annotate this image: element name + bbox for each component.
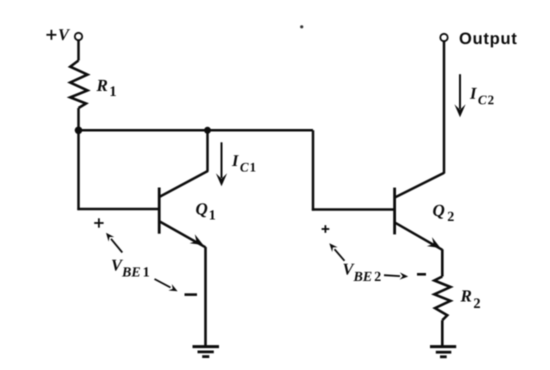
wire Q2 collector to Output <box>443 41 446 174</box>
label + (VBE2) <box>322 225 330 233</box>
arrow VBE1 to minus <box>155 279 178 291</box>
arrow VBE2 to minus <box>384 272 408 279</box>
wire branch down to Q2 base <box>312 130 315 210</box>
label R2 <box>460 290 479 308</box>
label minus (VBE1) <box>185 293 198 296</box>
label VBE1 <box>112 260 149 277</box>
wire +V to R1 <box>77 40 80 60</box>
terminal +V <box>75 33 82 40</box>
wire node B to Q1 collector <box>206 130 209 171</box>
arrow IC1 <box>216 142 227 186</box>
node B junction <box>204 127 211 134</box>
wire left branch (node A to Q1 base wire) <box>77 130 80 210</box>
label R1 <box>96 80 115 96</box>
terminal Output <box>440 34 447 41</box>
wire Q1 base <box>77 208 159 211</box>
label Output <box>460 32 517 47</box>
resistor R1 <box>70 61 87 109</box>
wire R1 to node A <box>77 108 80 131</box>
resistor R2 <box>434 277 450 321</box>
label Q2 <box>433 205 454 221</box>
wire Q1 emitter to ground <box>204 247 207 347</box>
label IC1 <box>232 155 256 171</box>
wire Q2 emitter to R2 <box>441 249 444 276</box>
arrow VBE2 to + <box>329 243 344 261</box>
wire R2 to ground <box>441 320 444 347</box>
ground (R2) <box>430 347 456 357</box>
label Q1 <box>196 203 215 219</box>
label IC2 <box>470 88 494 104</box>
transistor Q2 <box>395 173 444 250</box>
node A junction <box>75 127 83 135</box>
arrow IC2 <box>454 74 465 117</box>
label minus (VBE2) <box>417 273 426 276</box>
wire Q2 base <box>312 208 395 211</box>
ground (Q1 emitter) <box>193 347 220 357</box>
wire main horizontal node A to Q2 branch <box>79 129 314 132</box>
label +V <box>46 29 70 40</box>
label VBE2 <box>343 264 380 281</box>
stray dot <box>300 25 303 28</box>
label + (VBE1) <box>94 218 103 227</box>
arrow VBE1 to + <box>106 233 122 253</box>
transistor Q1 <box>159 171 208 247</box>
